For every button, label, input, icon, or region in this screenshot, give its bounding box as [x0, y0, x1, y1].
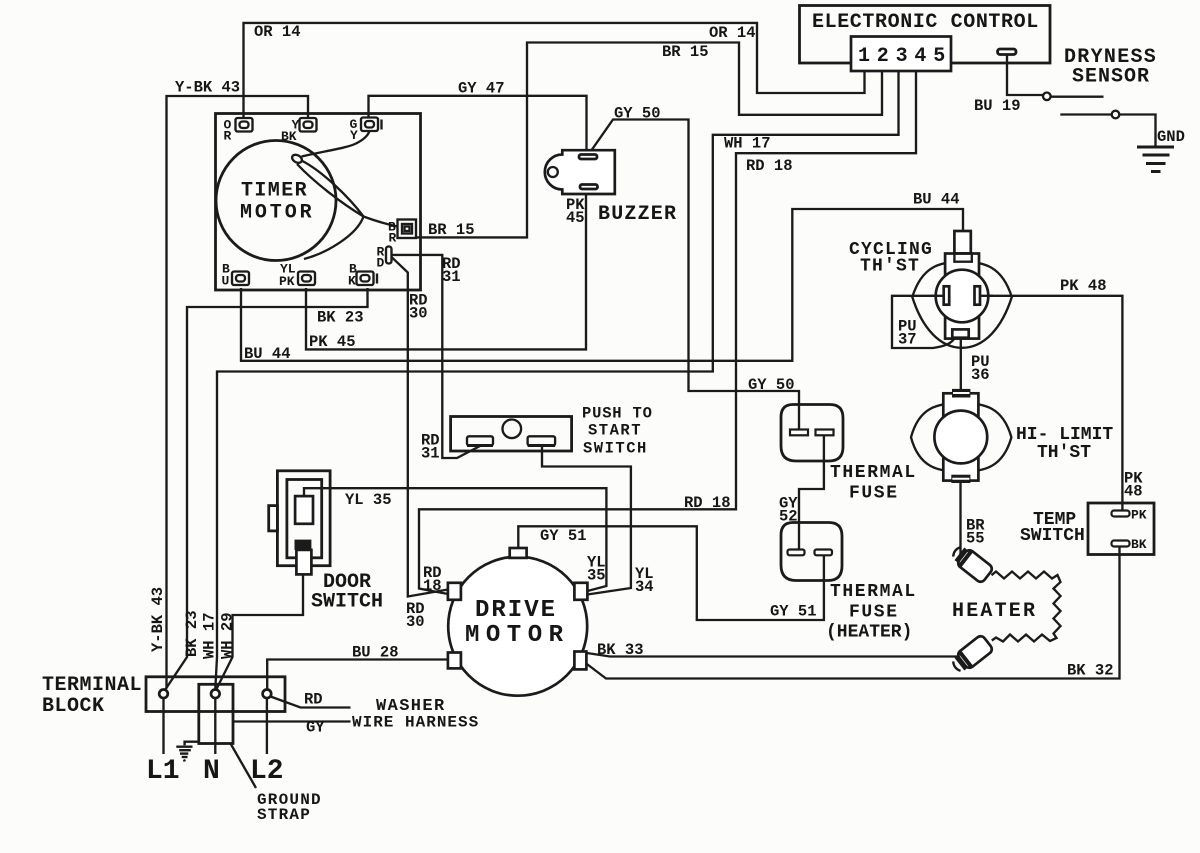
svg-text:18: 18 — [423, 577, 442, 595]
svg-text:YL 35: YL 35 — [345, 491, 392, 509]
wire YL 35 (door switch to drive motor right terminal) — [304, 488, 606, 591]
timer motor circle — [216, 141, 336, 261]
wire PU 36 (cycling thermostat to hi-limit thermostat) — [960, 337, 962, 390]
svg-text:TERMINAL: TERMINAL — [42, 674, 142, 697]
cycling thermostat body — [945, 254, 979, 339]
svg-text:45: 45 — [566, 209, 585, 227]
svg-text:ELECTRONIC CONTROL: ELECTRONIC CONTROL — [812, 11, 1039, 34]
timer motor cam curve lower hook — [297, 164, 364, 259]
thermal fuse heater body — [781, 523, 842, 581]
door switch inner box — [287, 480, 322, 558]
door switch outer box — [277, 471, 330, 566]
wire BR 55 (hi-limit thermostat to heater insulator) — [959, 483, 961, 555]
control connector bar (dryness sensor output) — [998, 49, 1017, 55]
svg-text:35: 35 — [587, 567, 606, 585]
svg-text:SWITCH: SWITCH — [583, 440, 648, 458]
svg-text:GY 50: GY 50 — [748, 376, 795, 394]
svg-text:30: 30 — [406, 613, 425, 631]
svg-text:PK: PK — [1131, 508, 1147, 523]
svg-text:START: START — [588, 422, 642, 440]
temp switch PK contact — [1112, 511, 1130, 517]
svg-text:GY 51: GY 51 — [540, 527, 587, 545]
svg-text:DRIVE: DRIVE — [475, 597, 557, 624]
heater top insulator — [949, 543, 994, 584]
svg-text:TH'ST: TH'ST — [1037, 443, 1091, 463]
wire RD 31 (timer R-D terminal to push-to-start switch) — [391, 255, 480, 458]
wire Y-BK 43 (timer Y-BK terminal to terminal L1) — [167, 96, 309, 689]
cycling thermostat disc — [936, 270, 989, 323]
wire PU 37 (cycling thermostat loop) — [892, 296, 955, 348]
terminal L1 circle — [159, 690, 168, 699]
wire WH 17 (control pin 3 to terminal N) — [215, 71, 898, 689]
svg-text:PK 45: PK 45 — [309, 333, 356, 351]
wire BK 32 (drive motor lower-right terminal to temp switch) — [587, 547, 1120, 679]
svg-text:BR 15: BR 15 — [662, 43, 709, 61]
timer terminal R-D — [386, 247, 392, 264]
terminal L1 stub — [162, 698, 164, 754]
hi-limit thermostat body — [943, 393, 978, 480]
drive motor left terminal — [448, 583, 461, 600]
svg-text:36: 36 — [971, 366, 990, 384]
svg-text:Y-BK 43: Y-BK 43 — [175, 79, 240, 97]
terminal L2 circle — [263, 690, 272, 699]
svg-text:34: 34 — [635, 578, 654, 596]
svg-text:BR 15: BR 15 — [428, 221, 475, 239]
svg-text:L1: L1 — [146, 756, 180, 787]
svg-text:GY 51: GY 51 — [770, 603, 817, 621]
svg-text:30: 30 — [409, 305, 428, 323]
cycling thermostat right contact — [975, 286, 981, 304]
timer terminal B-U — [232, 272, 249, 286]
ground strap leader line — [231, 744, 257, 789]
svg-text:THERMAL: THERMAL — [830, 582, 917, 602]
svg-text:SENSOR: SENSOR — [1072, 66, 1150, 89]
timer terminal G-Y — [361, 118, 382, 132]
dryness sensor contact circle 2 — [1112, 111, 1120, 119]
door switch bottom contact — [295, 540, 312, 575]
wire GY 52 (thermal fuse to thermal fuse heater) — [799, 434, 824, 550]
terminal L2 stub — [266, 698, 268, 754]
terminal N stub — [214, 698, 216, 754]
drive motor lower-left terminal — [448, 653, 461, 669]
svg-text:BK: BK — [281, 129, 297, 144]
timer terminal YL-PK — [298, 272, 315, 286]
drive motor lower-right terminal — [574, 652, 586, 670]
svg-text:MOTOR: MOTOR — [240, 202, 315, 225]
svg-text:TIMER: TIMER — [241, 180, 308, 203]
wire PK 48 (cycling thermostat right contact to temp switch) — [977, 296, 1122, 511]
electronic control box — [800, 6, 1051, 64]
timer terminal Y-BK — [300, 118, 317, 132]
wire BR 15 (timer B-R terminal to control pin 2) — [416, 43, 882, 238]
svg-text:R: R — [224, 129, 232, 144]
timer terminal B-K — [357, 272, 378, 286]
electronic control pins box U1 — [851, 37, 951, 72]
timer motor box — [216, 114, 421, 291]
svg-text:WH 17: WH 17 — [724, 135, 771, 153]
svg-text:THERMAL: THERMAL — [830, 463, 917, 483]
svg-text:BLOCK: BLOCK — [42, 695, 105, 718]
cycling thermostat contact wire stubs — [930, 295, 944, 297]
wire BK 23 (timer B-K terminal to terminal L1) — [165, 288, 368, 690]
thermal fuse body — [781, 405, 843, 462]
svg-text:BK 32: BK 32 — [1067, 662, 1114, 680]
svg-text:STRAP: STRAP — [257, 806, 311, 824]
svg-text:Y-BK 43: Y-BK 43 — [149, 587, 167, 652]
svg-text:Y: Y — [350, 128, 358, 143]
svg-text:52: 52 — [779, 508, 798, 526]
drive motor circle — [448, 557, 587, 696]
timer terminal O-R — [236, 118, 253, 132]
svg-text:GY 47: GY 47 — [458, 80, 505, 98]
svg-text:BK 33: BK 33 — [597, 641, 644, 659]
svg-text:BU 44: BU 44 — [913, 191, 960, 209]
svg-text:BK: BK — [1131, 537, 1147, 552]
wire PK 45 (timer YL-PK terminal to buzzer bottom) — [306, 190, 586, 349]
door switch plunger — [295, 496, 313, 524]
push to start switch right contact — [528, 436, 556, 445]
svg-text:U: U — [222, 274, 230, 289]
svg-text:BK 23: BK 23 — [183, 610, 201, 657]
door switch left tab — [269, 506, 278, 531]
push to start switch button circle — [503, 420, 522, 439]
heater element zigzag — [992, 572, 1061, 642]
wire dryness sensor contact 1 — [1051, 96, 1104, 98]
timer motor cam oval — [291, 153, 304, 164]
svg-text:PK 48: PK 48 — [1060, 277, 1107, 295]
svg-text:BK 23: BK 23 — [317, 309, 364, 327]
ground strap earth symbol — [176, 742, 199, 762]
cycling thermostat inner top bar — [954, 254, 971, 262]
svg-text:OR 14: OR 14 — [254, 23, 301, 41]
timer terminal B-R — [398, 220, 417, 239]
svg-text:TH'ST: TH'ST — [860, 257, 920, 277]
wire GY 50 (buzzer top to thermal fuse) — [589, 120, 799, 431]
svg-text:GY: GY — [306, 719, 325, 737]
svg-text:OR 14: OR 14 — [709, 24, 756, 42]
thermal fuse left contact — [790, 430, 808, 436]
hi-limit thermostat top terminal — [952, 389, 970, 398]
temp switch BK contact — [1112, 541, 1130, 547]
svg-text:31: 31 — [442, 268, 461, 286]
svg-text:WH 17: WH 17 — [201, 612, 219, 659]
svg-text:L2: L2 — [250, 756, 284, 787]
wire BU 28 (terminal L2 to drive motor lower-left terminal) — [267, 660, 448, 690]
drive motor top terminal — [510, 548, 527, 558]
wire GY washer harness — [233, 720, 351, 722]
hi-limit thermostat wings — [911, 403, 1011, 472]
terminal block box — [146, 677, 285, 712]
svg-text:PK: PK — [279, 274, 295, 289]
wire WH 29 (door switch bottom to terminal N) — [217, 574, 304, 689]
wire dryness sensor contact 2 — [1060, 113, 1111, 115]
wire RD washer harness — [271, 697, 351, 708]
cycling thermostat wings — [912, 262, 1012, 348]
svg-text:PUSH TO: PUSH TO — [582, 405, 653, 423]
svg-text:55: 55 — [966, 530, 985, 548]
thermal fuse heater right contact — [815, 550, 833, 556]
wire BU 44 (timer B-U terminal to cycling thermostat top) — [241, 209, 963, 361]
wire RD 18 (control pin 4 to drive motor left terminal) — [419, 71, 916, 594]
temp switch box — [1088, 503, 1154, 555]
drive motor right terminal — [574, 583, 587, 600]
thermal fuse right contact — [816, 430, 834, 436]
wire GY 47 (timer G-Y terminal to buzzer top) — [369, 96, 587, 153]
svg-text:K: K — [348, 274, 356, 289]
wire OR 14 (timer O-R terminal to control pin 1) — [244, 23, 865, 118]
svg-text:GY 50: GY 50 — [614, 105, 661, 123]
buzzer hole — [548, 167, 558, 177]
cycling thermostat bottom terminal — [952, 329, 968, 337]
svg-text:GND: GND — [1157, 128, 1185, 146]
svg-text:HEATER: HEATER — [952, 600, 1037, 623]
wire YL 34 (push-to-start switch to drive motor right terminal) — [542, 446, 631, 595]
heater bottom insulator — [949, 634, 994, 675]
timer motor cam curve to G-Y — [302, 132, 370, 157]
svg-text:FUSE: FUSE — [849, 484, 899, 504]
svg-text:31: 31 — [421, 445, 440, 463]
svg-text:WH 29: WH 29 — [219, 612, 237, 659]
cycling thermostat top connector — [954, 231, 970, 254]
svg-text:WIRE HARNESS: WIRE HARNESS — [352, 714, 479, 732]
terminal N circle — [211, 690, 220, 699]
buzzer bottom terminal — [580, 185, 598, 190]
svg-text:(HEATER): (HEATER) — [826, 623, 912, 643]
wire BU 19 (control connector to dryness sensor) — [1007, 54, 1043, 95]
buzzer top terminal — [579, 155, 597, 160]
svg-text:SWITCH: SWITCH — [1020, 526, 1085, 546]
svg-text:HI- LIMIT: HI- LIMIT — [1016, 425, 1113, 445]
svg-text:MOTOR: MOTOR — [465, 622, 570, 649]
hi-limit thermostat disc — [934, 411, 987, 464]
ground symbol GND — [1137, 147, 1174, 172]
cycling thermostat left contact — [944, 286, 950, 304]
push to start switch left contact — [467, 436, 493, 445]
svg-text:BU 44: BU 44 — [244, 345, 291, 363]
svg-text:BU 19: BU 19 — [974, 97, 1021, 115]
svg-text:12345: 12345 — [858, 45, 952, 68]
svg-text:RD: RD — [304, 691, 323, 709]
wire BK 33 (drive motor lower-right terminal to heater insulator) — [587, 653, 959, 657]
svg-text:D: D — [377, 256, 385, 271]
svg-text:R: R — [389, 231, 397, 246]
wire dryness sensor to GND — [1120, 115, 1156, 147]
svg-text:RD 18: RD 18 — [684, 494, 731, 512]
timer motor cam curve upper to B-R terminal — [302, 161, 398, 227]
hi-limit thermostat bottom terminal — [951, 475, 970, 483]
ground strap box — [199, 684, 233, 743]
svg-text:BU 28: BU 28 — [352, 644, 399, 662]
svg-text:37: 37 — [898, 331, 917, 349]
svg-text:N: N — [203, 756, 220, 787]
svg-text:FUSE: FUSE — [849, 603, 899, 623]
svg-text:RD 18: RD 18 — [746, 157, 793, 175]
dryness sensor contact circle 1 — [1043, 93, 1051, 101]
buzzer body — [545, 150, 615, 194]
wire RD 30 (timer R-D terminal to drive motor left terminal) — [391, 257, 448, 597]
thermal fuse heater left contact — [788, 550, 805, 556]
push to start switch box — [451, 417, 572, 452]
svg-text:48: 48 — [1124, 483, 1143, 501]
svg-text:BUZZER: BUZZER — [598, 203, 677, 226]
wire GY 51 (drive motor top terminal to thermal fuse heater) — [518, 526, 824, 620]
svg-text:SWITCH: SWITCH — [311, 591, 383, 614]
